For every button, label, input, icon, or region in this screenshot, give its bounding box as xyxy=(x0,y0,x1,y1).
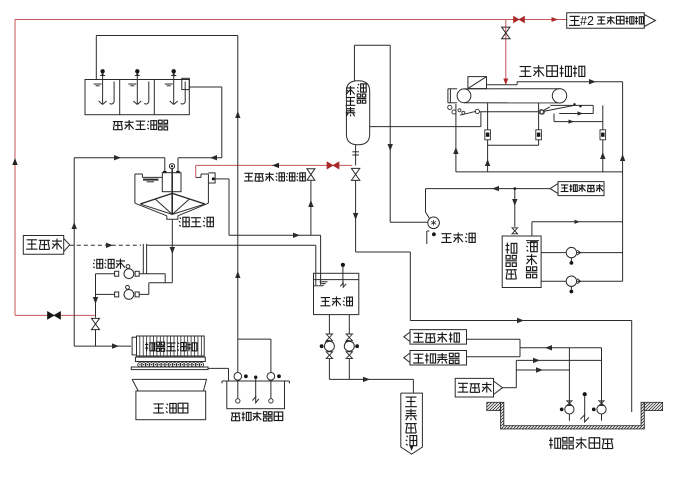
svg-text:#2: #2 xyxy=(580,14,594,28)
